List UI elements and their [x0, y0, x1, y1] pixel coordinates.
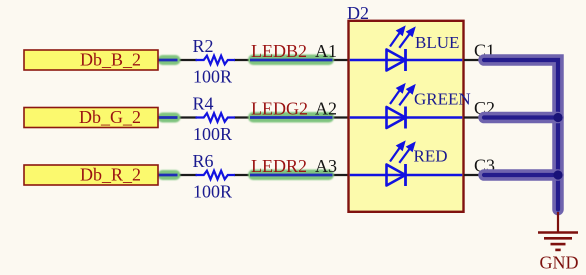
svg-text:RED: RED — [414, 147, 448, 166]
LED RED — [387, 143, 448, 187]
wire — [234, 59, 349, 61]
svg-text:Db_R_2: Db_R_2 — [80, 165, 141, 185]
svg-text:D2: D2 — [347, 3, 369, 23]
net highlight stub — [158, 113, 181, 123]
port Db_B_2 — [24, 50, 158, 70]
svg-text:A3: A3 — [315, 156, 337, 176]
pin C3 — [464, 156, 495, 176]
value 100R — [193, 67, 232, 87]
LED GREEN — [387, 85, 471, 129]
net highlight LEDR2 — [248, 170, 334, 181]
thick wire C2 — [484, 112, 558, 124]
net label LEDB2 — [251, 41, 307, 61]
net highlight stub — [158, 170, 181, 180]
svg-text:R6: R6 — [193, 151, 214, 171]
LED BLUE — [387, 28, 460, 72]
wire — [157, 116, 197, 118]
net highlight stub — [158, 55, 181, 65]
port Db_G_2 — [24, 107, 158, 127]
svg-text:LEDB2: LEDB2 — [251, 41, 307, 61]
thick wire C1 to GND net — [484, 60, 558, 210]
value 100R — [193, 182, 232, 202]
svg-text:GND: GND — [540, 252, 579, 272]
ground — [538, 212, 578, 250]
svg-text:Db_G_2: Db_G_2 — [79, 107, 141, 127]
wire — [157, 174, 197, 176]
svg-text:100R: 100R — [193, 182, 232, 202]
svg-text:A1: A1 — [315, 41, 337, 61]
resistor R4 — [193, 94, 236, 122]
svg-text:100R: 100R — [193, 67, 232, 87]
svg-text:A2: A2 — [315, 98, 337, 118]
value 100R — [193, 124, 232, 144]
pin C1 — [464, 41, 495, 61]
port Db_R_2 — [24, 165, 158, 185]
net highlight LEDB2 — [248, 55, 334, 66]
wire LED3 — [350, 174, 463, 176]
svg-text:LEDG2: LEDG2 — [251, 99, 308, 119]
pin A1 — [315, 41, 337, 61]
svg-text:LEDR2: LEDR2 — [251, 156, 307, 176]
junction at C2 — [553, 113, 562, 122]
wire — [234, 174, 349, 176]
svg-text:R4: R4 — [193, 94, 214, 114]
net label GND — [540, 252, 579, 272]
wire — [157, 59, 197, 61]
net label LEDR2 — [251, 156, 307, 176]
pin A2 — [315, 98, 337, 118]
svg-text:Db_B_2: Db_B_2 — [80, 50, 141, 70]
svg-text:BLUE: BLUE — [415, 33, 459, 52]
pin C2 — [464, 98, 495, 118]
svg-text:100R: 100R — [193, 124, 232, 144]
resistor R2 — [193, 36, 236, 64]
wire LED1 — [350, 59, 463, 61]
net label LEDG2 — [251, 99, 308, 119]
svg-text:GREEN: GREEN — [414, 89, 471, 108]
wire — [234, 116, 349, 118]
pin A3 — [315, 156, 337, 176]
net highlight LEDG2 — [248, 112, 334, 123]
resistor R6 — [193, 151, 236, 179]
thick wire C3 — [484, 169, 558, 181]
component body D2 — [347, 3, 464, 212]
junction at C3 — [553, 170, 562, 179]
svg-text:R2: R2 — [193, 36, 214, 56]
wire LED2 — [350, 116, 463, 118]
